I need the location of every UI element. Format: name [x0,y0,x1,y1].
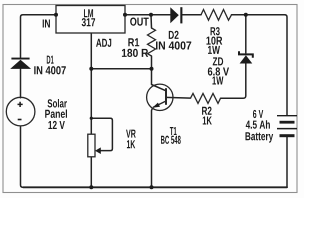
minus sign [18,119,22,121]
node ADJ junction [89,67,93,71]
label 4.5 Ah [246,120,270,128]
node zener top [244,13,248,17]
wire: R1 bottom stub [151,56,153,69]
diode D2 [170,7,182,23]
wire: D1 anode down to solar panel top [20,69,22,98]
label Panel [45,109,67,117]
label 1W [208,46,220,54]
node emitter ground [150,185,154,189]
label IN 4007 [156,41,191,49]
node R1 bottom collector [150,67,154,71]
label R1 [128,38,139,46]
regulator U1 LM317 box [56,6,125,34]
potentiometer VR box [88,134,95,157]
label Solar [48,99,67,107]
label 1K [127,140,135,148]
transistor emitter line [153,101,166,107]
label 12 V [48,121,64,129]
node IN pin [54,13,58,17]
label IN [43,19,50,27]
plus sign [18,102,23,107]
label D2 [169,31,179,39]
label D1 [47,56,54,64]
transistor T1 circle [147,84,173,110]
label OUT [130,17,149,25]
label IN 4007 [34,66,66,74]
resistor R1 zigzag [148,28,156,56]
label LM [84,9,93,17]
wire: R3 to zener node and right rail corner [232,15,288,115]
label Battery [245,132,273,142]
wire: right rail battery minus to ground rail [286,136,288,187]
label VR [126,130,136,138]
label 180 R [122,49,148,57]
wire: left rail from D1 cathode up and over to IN pin [21,15,57,58]
border frame [3,5,297,193]
label ZD [213,57,223,65]
wire: R2 to zener anode node [221,64,246,99]
label 1W [212,76,223,84]
label R2 [202,107,212,115]
label 317 [82,18,95,26]
label BC 548 [161,136,181,144]
wiper arrow head [95,147,101,154]
label ADJ [96,39,111,47]
label 1K [203,116,212,124]
resistor R3 zigzag [201,10,232,21]
wire: base lead to R2 [166,96,191,99]
wire: VR bottom to ground rail [90,157,92,188]
wire: ADJ lead down [90,33,92,69]
diode D1 [10,58,31,69]
zener diode ZD [239,51,253,58]
wire: solar panel bottom to ground rail corner [21,126,24,187]
wire: D2 cathode to R3 [183,14,202,16]
battery plates [277,116,297,136]
wire: R1 top stub [150,15,153,28]
emitter arrow head [152,103,160,108]
wire: ADJ node horizontal to R1 bottom [91,68,151,70]
wire: zener cathode up to R3 node [245,15,247,53]
wire: emitter lead down to ground rail [151,109,154,188]
label T1 [170,127,177,135]
wire: VR wiper loop [91,118,112,150]
node VR ground [89,185,93,189]
label R3 [211,27,220,35]
solar panel source [6,97,35,126]
node R1 top [149,13,153,17]
node OUT pin [123,13,127,17]
transistor base bar [165,88,167,105]
wire: ADJ node down to VR top [90,69,92,134]
wire: bottom ground rail [23,186,287,188]
label 6 V [253,110,263,118]
node wiper branch [90,117,93,120]
resistor R2 zigzag [191,93,221,103]
wire: OUT pin to D2 anode [125,14,170,16]
label 10R [206,36,222,44]
label 6.8 V [208,67,229,75]
wire: collector lead into transistor [152,69,167,91]
